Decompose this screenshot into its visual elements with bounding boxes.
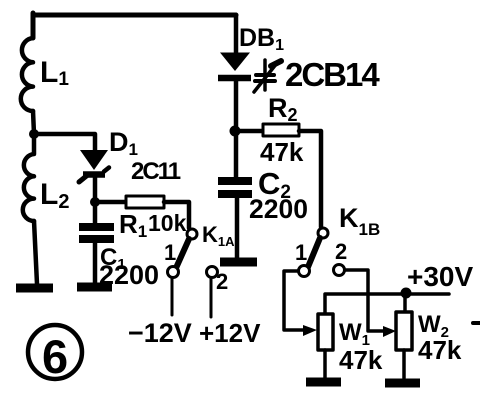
arrow into W2 wiper xyxy=(383,326,396,337)
ground (C1) xyxy=(77,283,112,292)
wire node C to C2 xyxy=(234,136,239,177)
ground (W2) xyxy=(385,379,420,388)
wire K1A contact1 to -12V xyxy=(171,278,174,315)
svg-text:1: 1 xyxy=(164,240,176,265)
svg-text:47k: 47k xyxy=(339,345,383,375)
switch K1A common contact xyxy=(187,229,197,239)
switch K1A arm xyxy=(176,239,189,268)
svg-text:1: 1 xyxy=(295,240,307,265)
node C junction dot xyxy=(230,126,241,137)
wire node A to D1 anode xyxy=(34,134,95,150)
ground (C2) xyxy=(220,258,257,267)
svg-text:2: 2 xyxy=(216,269,228,294)
capacitor C1 xyxy=(79,227,114,239)
svg-text:2C11: 2C11 xyxy=(131,158,181,185)
wire DB1 anode drop xyxy=(234,15,239,53)
svg-text:47k: 47k xyxy=(418,335,462,365)
ground (L2) xyxy=(16,284,53,293)
wire R2 to K1B common xyxy=(299,131,321,227)
switch K1A contact 2 xyxy=(207,267,218,278)
wire DB1 cathode to node C xyxy=(234,80,239,126)
wire C2 to ground xyxy=(235,198,240,258)
node +30V junction dot xyxy=(401,288,412,299)
node A junction dot xyxy=(29,129,39,139)
diode DB1 (2CB14) xyxy=(218,53,251,79)
wire node B to C1 xyxy=(93,206,98,223)
svg-text:2200: 2200 xyxy=(99,260,159,290)
wire W2 to ground xyxy=(402,350,406,378)
svg-text:10k: 10k xyxy=(148,210,187,236)
ground (W1) xyxy=(306,378,341,387)
wire L2 bottom to ground xyxy=(34,221,37,284)
wire +30V rail xyxy=(325,294,449,314)
figure number circle 6 xyxy=(28,325,82,379)
potentiometer W2 xyxy=(396,312,412,350)
breakdown symbol for DB1 xyxy=(254,60,281,92)
svg-text:+12V: +12V xyxy=(199,318,261,348)
node B junction dot xyxy=(90,197,100,207)
wire K1B contact1 to W1 wiper xyxy=(284,271,303,330)
switch K1B contact 1 xyxy=(299,266,310,277)
wire D1 cathode to node B xyxy=(93,176,98,202)
resistor R1 xyxy=(126,196,164,208)
svg-text:47k: 47k xyxy=(260,137,304,167)
svg-text:−12V: −12V xyxy=(128,318,192,348)
arrow into W1 wiper xyxy=(303,325,317,336)
switch K1B contact 2 xyxy=(334,265,345,276)
wire left drop to L1 xyxy=(31,13,36,38)
inductor L1 xyxy=(21,38,33,111)
stray mark right edge xyxy=(473,321,480,325)
potentiometer W1 xyxy=(318,314,333,350)
diode D1 (zener 2C11) xyxy=(79,150,109,182)
inductor L2 xyxy=(23,138,34,221)
wire K1B contact2 to W2 wiper xyxy=(345,270,383,331)
resistor R2 xyxy=(263,124,299,136)
svg-text:2: 2 xyxy=(335,239,347,264)
wire +30V node to W2 top xyxy=(403,293,407,312)
wire node B to R1 xyxy=(95,200,126,205)
svg-text:2CB14: 2CB14 xyxy=(285,56,380,93)
capacitor C2 xyxy=(218,181,252,194)
svg-text:2200: 2200 xyxy=(249,194,308,224)
wire C1 to ground xyxy=(93,243,98,284)
wire L1 bottom to node A xyxy=(33,111,34,134)
wire R1 to K1A common xyxy=(164,202,189,228)
switch K1A contact 1 xyxy=(168,267,179,278)
wire node C to R2 xyxy=(240,129,263,134)
wire top rail from L1 top to DB1 xyxy=(33,13,236,18)
switch K1B arm xyxy=(308,238,320,267)
wire K1A contact2 to +12V xyxy=(210,278,213,317)
wire W1 to ground xyxy=(323,350,327,378)
svg-text:+30V: +30V xyxy=(407,261,473,292)
switch K1B common contact xyxy=(318,228,328,238)
svg-text:6: 6 xyxy=(42,330,68,383)
